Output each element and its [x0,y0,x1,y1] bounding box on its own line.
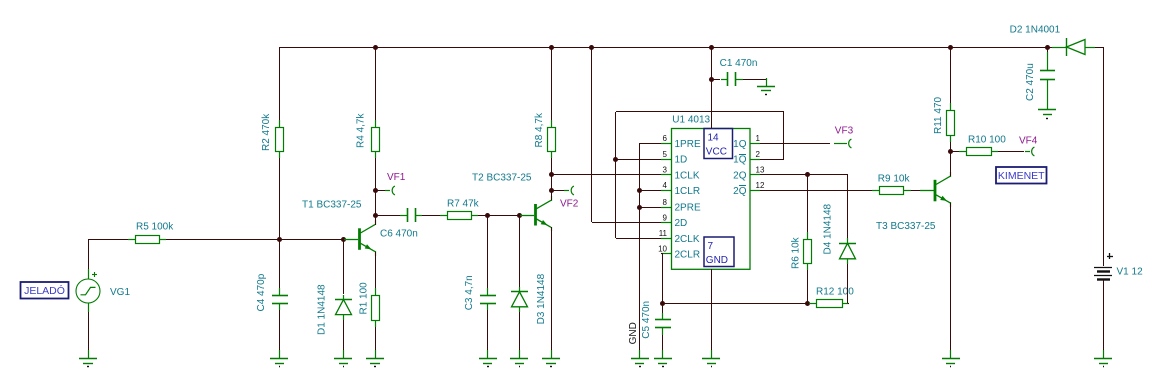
svg-text:13: 13 [756,166,765,175]
svg-text:R5 100k: R5 100k [136,221,174,232]
svg-text:4: 4 [663,181,668,190]
svg-text:U1 4013: U1 4013 [672,115,710,126]
svg-text:1Q: 1Q [733,155,747,166]
svg-text:12: 12 [756,181,765,190]
svg-text:R2 470k: R2 470k [261,113,272,151]
svg-text:C5 470n: C5 470n [641,301,652,339]
svg-text:11: 11 [659,229,668,238]
svg-text:2: 2 [756,150,761,159]
svg-text:1CLK: 1CLK [675,170,700,181]
svg-text:R8 4,7k: R8 4,7k [534,112,545,147]
svg-text:R12 100: R12 100 [816,286,854,297]
svg-text:6: 6 [663,134,668,143]
svg-text:D3 1N4148: D3 1N4148 [536,273,547,324]
svg-text:C3 4,7n: C3 4,7n [464,275,475,310]
svg-text:T3 BC337-25: T3 BC337-25 [876,221,936,232]
svg-text:1Q: 1Q [733,139,747,150]
svg-text:8: 8 [663,198,668,207]
svg-text:R4 4,7k: R4 4,7k [355,113,366,148]
svg-text:2Q: 2Q [733,170,747,181]
svg-text:C2 470u: C2 470u [1025,63,1036,101]
svg-text:2CLR: 2CLR [675,249,701,260]
svg-text:R1 100: R1 100 [358,282,369,315]
svg-text:1: 1 [756,134,761,143]
svg-text:R11 470: R11 470 [933,96,944,134]
svg-text:9: 9 [663,213,668,222]
svg-text:VCC: VCC [706,146,727,157]
svg-text:1D: 1D [675,155,688,166]
svg-text:R6 10k: R6 10k [790,236,801,269]
svg-text:3: 3 [663,166,668,175]
svg-text:R9 10k: R9 10k [878,173,911,184]
svg-text:T2 BC337-25: T2 BC337-25 [472,173,532,184]
svg-text:14: 14 [708,132,720,143]
svg-text:R10 100: R10 100 [968,135,1006,146]
svg-text:V1 12: V1 12 [1117,267,1144,278]
svg-text:GND: GND [706,255,728,266]
svg-text:VF4: VF4 [1019,136,1038,147]
svg-text:7: 7 [708,241,714,252]
svg-text:VF2: VF2 [560,198,579,209]
svg-text:C1 470n: C1 470n [720,58,758,69]
svg-text:1CLR: 1CLR [675,186,701,197]
svg-text:T1 BC337-25: T1 BC337-25 [302,199,362,210]
svg-text:D1 1N4148: D1 1N4148 [317,284,328,335]
svg-text:VG1: VG1 [110,287,130,298]
svg-text:GND: GND [628,322,639,344]
svg-text:C6 470n: C6 470n [380,228,418,239]
svg-text:R7 47k: R7 47k [447,198,480,209]
svg-text:10: 10 [658,245,667,254]
svg-text:2PRE: 2PRE [675,203,701,214]
svg-text:D2 1N4001: D2 1N4001 [1010,24,1061,35]
svg-text:C4 470p: C4 470p [256,273,267,311]
svg-text:VF3: VF3 [835,126,854,137]
svg-text:1PRE: 1PRE [675,139,701,150]
svg-text:VF1: VF1 [387,172,406,183]
svg-text:JELADÓ: JELADÓ [24,284,65,297]
svg-text:2D: 2D [675,218,688,229]
svg-text:5: 5 [663,150,668,159]
svg-text:D4 1N4148: D4 1N4148 [823,203,834,254]
svg-text:2Q: 2Q [733,186,747,197]
svg-text:2CLK: 2CLK [675,234,700,245]
svg-text:KIMENET: KIMENET [998,170,1045,182]
